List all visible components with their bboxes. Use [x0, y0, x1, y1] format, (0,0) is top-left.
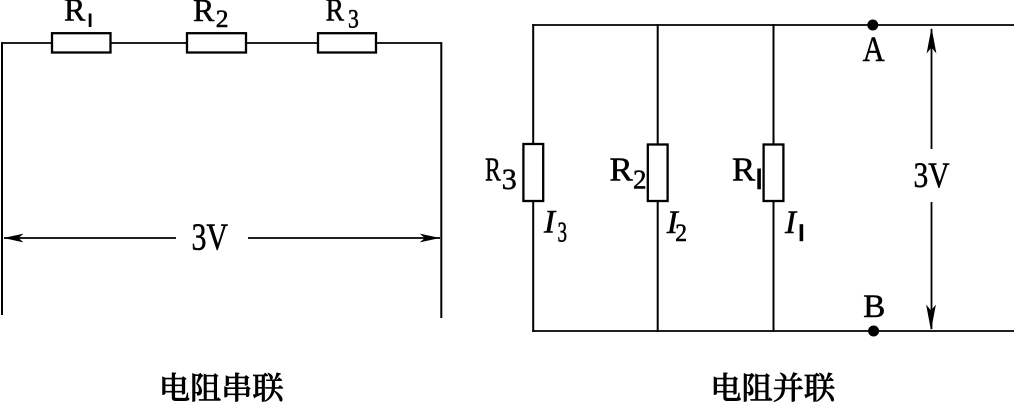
svg-text:3V: 3V — [914, 155, 950, 195]
resistor R1 body — [52, 33, 111, 52]
wire: segment R1 to R2 — [111, 42, 189, 44]
svg-text:A: A — [863, 29, 885, 69]
wire: top rail — [532, 24, 1014, 26]
svg-text:2: 2 — [633, 165, 647, 195]
voltage arrow 3V right half — [248, 234, 440, 243]
label R1 — [64, 0, 92, 28]
svg-text:2: 2 — [216, 6, 229, 33]
label R3 (parallel) — [485, 152, 517, 197]
resistor R2 body — [187, 33, 246, 52]
svg-text:R: R — [732, 152, 756, 189]
svg-text:R: R — [485, 152, 501, 189]
wire: segment R2 to R3 — [246, 42, 319, 44]
svg-text:3V: 3V — [192, 217, 229, 259]
label R3 — [326, 0, 359, 33]
wire: right vertical — [440, 42, 442, 318]
label current I2 — [666, 205, 687, 247]
wire: branch 2 lower — [657, 201, 659, 332]
svg-text:3: 3 — [348, 4, 359, 33]
svg-text:I: I — [784, 205, 798, 241]
node A junction dot — [867, 20, 878, 31]
svg-text:3: 3 — [558, 218, 568, 249]
wire: top-left segment — [2, 42, 53, 44]
label current I1 — [784, 205, 803, 241]
resistor R3 body (parallel) — [523, 144, 543, 201]
label current I3 — [543, 205, 567, 249]
wire: bottom rail — [532, 330, 1014, 332]
label R2 — [193, 0, 229, 33]
voltage arrow 3V upper half (points up to rail) — [927, 28, 937, 150]
caption: parallel title 电阻并联 — [714, 373, 834, 402]
caption: series title 电阻串联 — [163, 373, 283, 402]
resistor R2 body (parallel) — [648, 145, 668, 202]
svg-text:B: B — [863, 289, 885, 325]
wire: left vertical — [1, 42, 3, 315]
wire: top-right segment — [376, 42, 441, 44]
label R2 (parallel) — [610, 152, 647, 195]
svg-text:3: 3 — [502, 163, 517, 196]
wire: branch 3 lower — [532, 201, 534, 332]
node B junction dot — [868, 326, 879, 337]
wire: branch 1 upper — [773, 24, 775, 145]
svg-text:2: 2 — [675, 220, 687, 247]
svg-text:R: R — [64, 0, 86, 28]
resistor R1 body (parallel) — [764, 145, 784, 202]
svg-text:R: R — [326, 0, 345, 28]
wire: branch 3 upper — [532, 24, 534, 145]
svg-text:R: R — [193, 0, 215, 28]
svg-text:I: I — [543, 205, 557, 241]
wire: branch 1 lower — [773, 201, 775, 332]
label R1 (parallel) — [732, 152, 761, 190]
resistor R3 body — [318, 33, 376, 52]
svg-text:R: R — [610, 152, 634, 189]
voltage arrow 3V lower half (points down to rail) — [926, 202, 936, 331]
voltage arrow 3V left half — [4, 234, 177, 243]
wire: branch 2 upper — [657, 24, 659, 145]
